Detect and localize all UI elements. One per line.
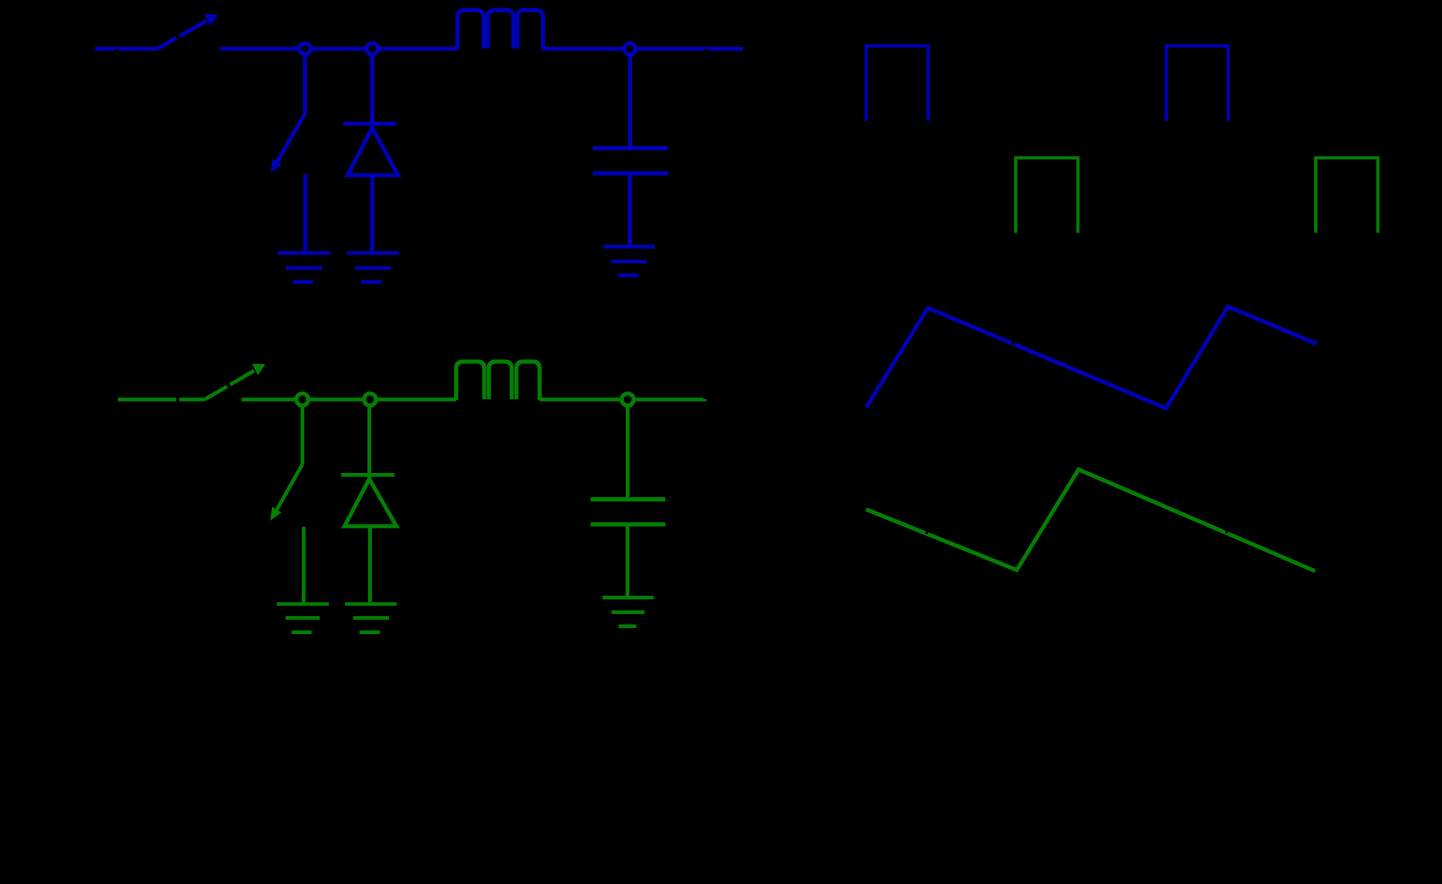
switch Q2 lower lead xyxy=(302,527,306,604)
wire switch to node A xyxy=(220,47,457,51)
ground under switch Q2 xyxy=(277,604,329,632)
diode D1 triangle xyxy=(347,128,398,175)
diode D2 lead xyxy=(367,405,371,480)
diode D2 anode lead xyxy=(368,528,372,602)
inductor current waveform phase1 xyxy=(866,307,1317,409)
wire output lead phase1 xyxy=(630,47,743,51)
ground under diode D2 xyxy=(345,604,397,632)
capacitor C2 plates xyxy=(591,499,666,524)
node F junction circle xyxy=(622,394,634,406)
capacitor C1 lower lead xyxy=(628,176,632,246)
switch SW2 arrowhead xyxy=(252,364,265,376)
inductor current waveform phase2 xyxy=(866,470,1315,572)
capacitor C1 lead xyxy=(628,55,632,147)
switch Q2 upper lead xyxy=(301,405,305,464)
label notch on blue input wire xyxy=(115,49,119,52)
switch Q1 blade xyxy=(277,114,305,162)
switch Q1 upper lead xyxy=(303,55,307,114)
switch Q1 arrowhead xyxy=(271,159,282,173)
diode D2 cathode bar xyxy=(341,473,394,477)
wire input lead phase2 xyxy=(118,398,205,402)
label nick on green current waveform 2 xyxy=(1225,530,1228,533)
gate pulse 2 phase1 xyxy=(1166,46,1228,121)
wire switch to node D xyxy=(242,398,456,402)
capacitor C1 plates xyxy=(593,148,668,173)
switch SW1 arrowhead xyxy=(204,14,217,26)
switch SW2 blade xyxy=(205,371,255,400)
label nick on blue current waveform xyxy=(1012,342,1015,345)
capacitor C2 lead xyxy=(626,405,630,497)
wire input lead phase1 xyxy=(95,47,157,51)
inductor L2 xyxy=(456,362,539,400)
gate pulse 1 phase2 xyxy=(1016,158,1078,233)
switch Q2 blade xyxy=(277,464,303,509)
wire output lead phase2 xyxy=(628,398,707,402)
inductor L1 xyxy=(458,10,544,49)
switch SW1 blade xyxy=(157,21,206,49)
wire inductor to node F xyxy=(540,398,628,402)
node D junction circle xyxy=(296,394,308,406)
wire inductor to node C xyxy=(543,47,630,51)
diode D1 anode lead xyxy=(370,177,374,251)
capacitor C2 lower lead xyxy=(626,527,630,597)
gate pulse 1 phase1 xyxy=(866,46,928,121)
node A junction circle xyxy=(299,43,310,54)
ground under switch Q1 xyxy=(278,253,331,282)
switch Q1 lower lead xyxy=(303,174,307,251)
diode D1 lead xyxy=(370,55,374,130)
node C junction circle xyxy=(624,43,635,54)
node E junction circle xyxy=(364,394,376,406)
label nick on green current waveform 1 xyxy=(926,531,929,534)
node B junction circle xyxy=(367,43,378,54)
switch Q2 arrowhead xyxy=(270,507,281,521)
diode D2 triangle xyxy=(345,479,397,526)
diode D1 cathode bar xyxy=(343,122,396,126)
ground under capacitor C1 xyxy=(603,247,655,276)
label notch on blue output wire xyxy=(704,49,709,52)
gate pulse 2 phase2 xyxy=(1316,158,1378,233)
ground under diode D1 xyxy=(347,253,399,282)
label notch on green output wire xyxy=(704,397,708,400)
ground under capacitor C2 xyxy=(603,598,654,627)
